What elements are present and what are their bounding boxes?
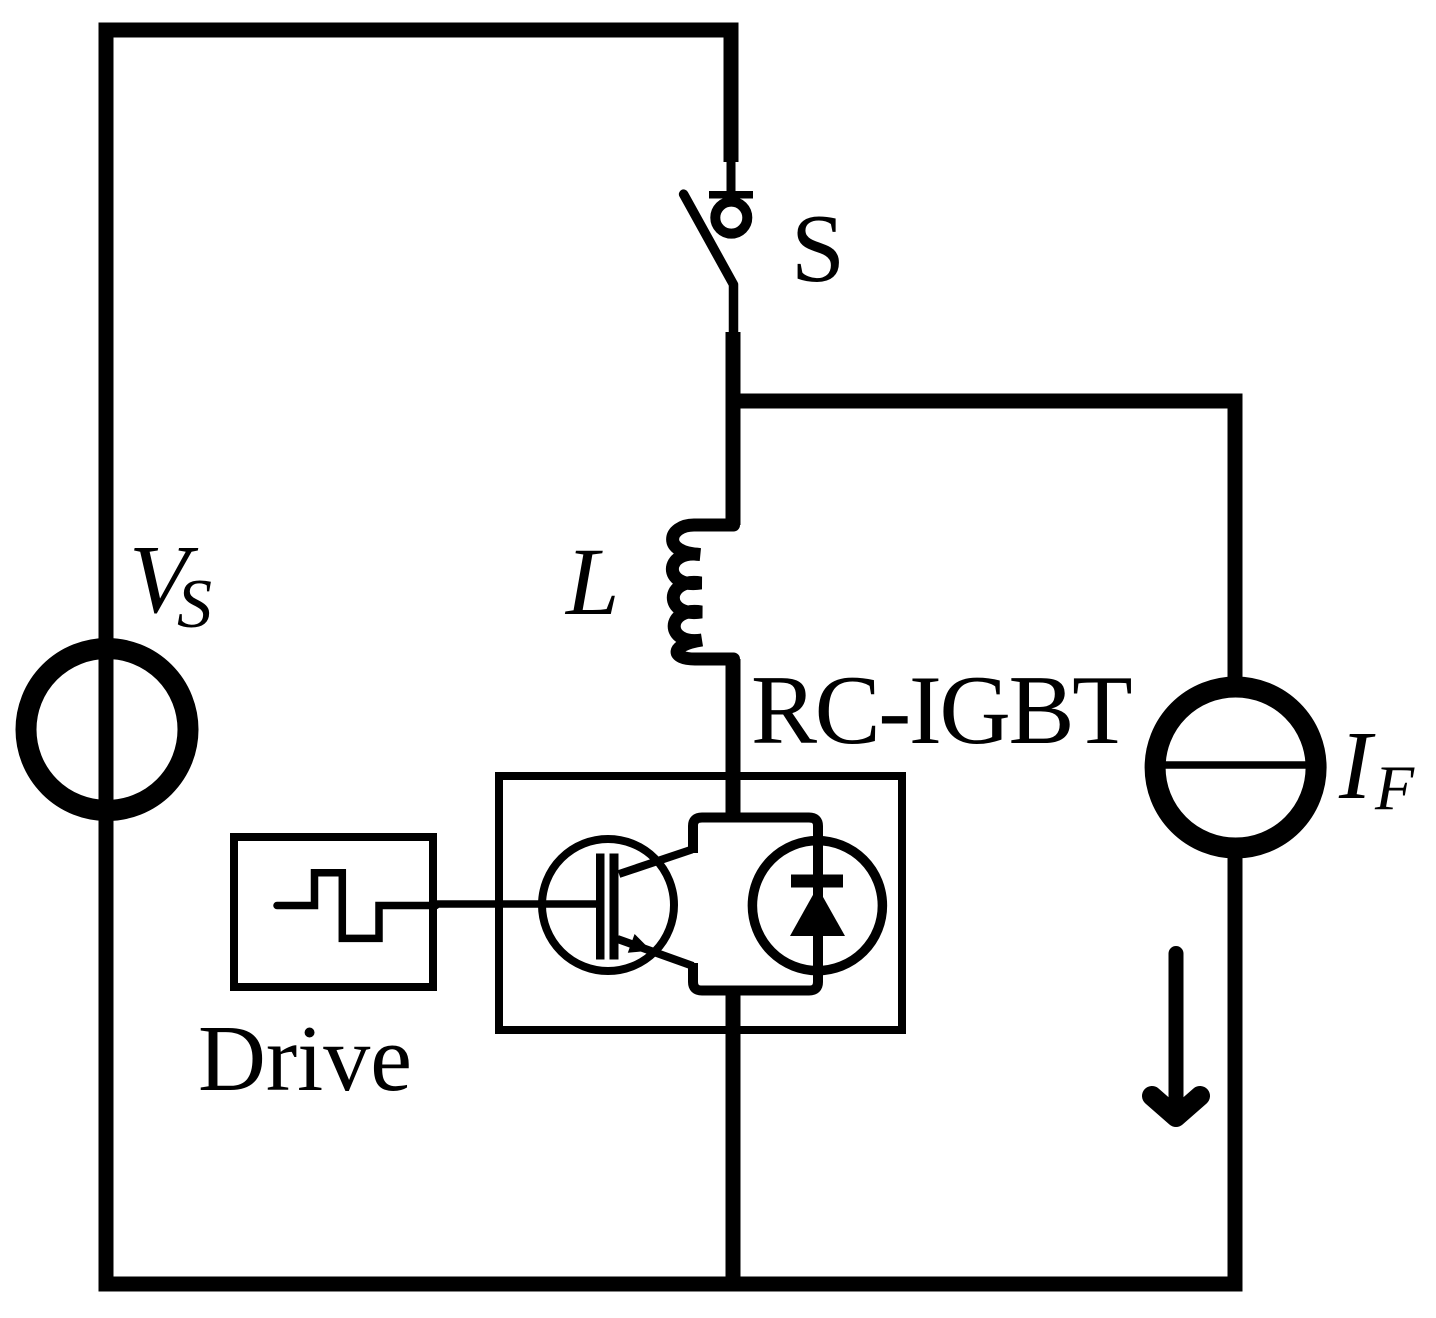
svg-text:L: L <box>564 528 619 635</box>
svg-text:S: S <box>791 195 845 302</box>
svg-text:F: F <box>1374 752 1415 823</box>
svg-text:S: S <box>177 566 212 643</box>
svg-text:I: I <box>1338 712 1376 820</box>
svg-text:RC-IGBT: RC-IGBT <box>751 656 1131 765</box>
svg-text:Drive: Drive <box>198 1007 412 1111</box>
